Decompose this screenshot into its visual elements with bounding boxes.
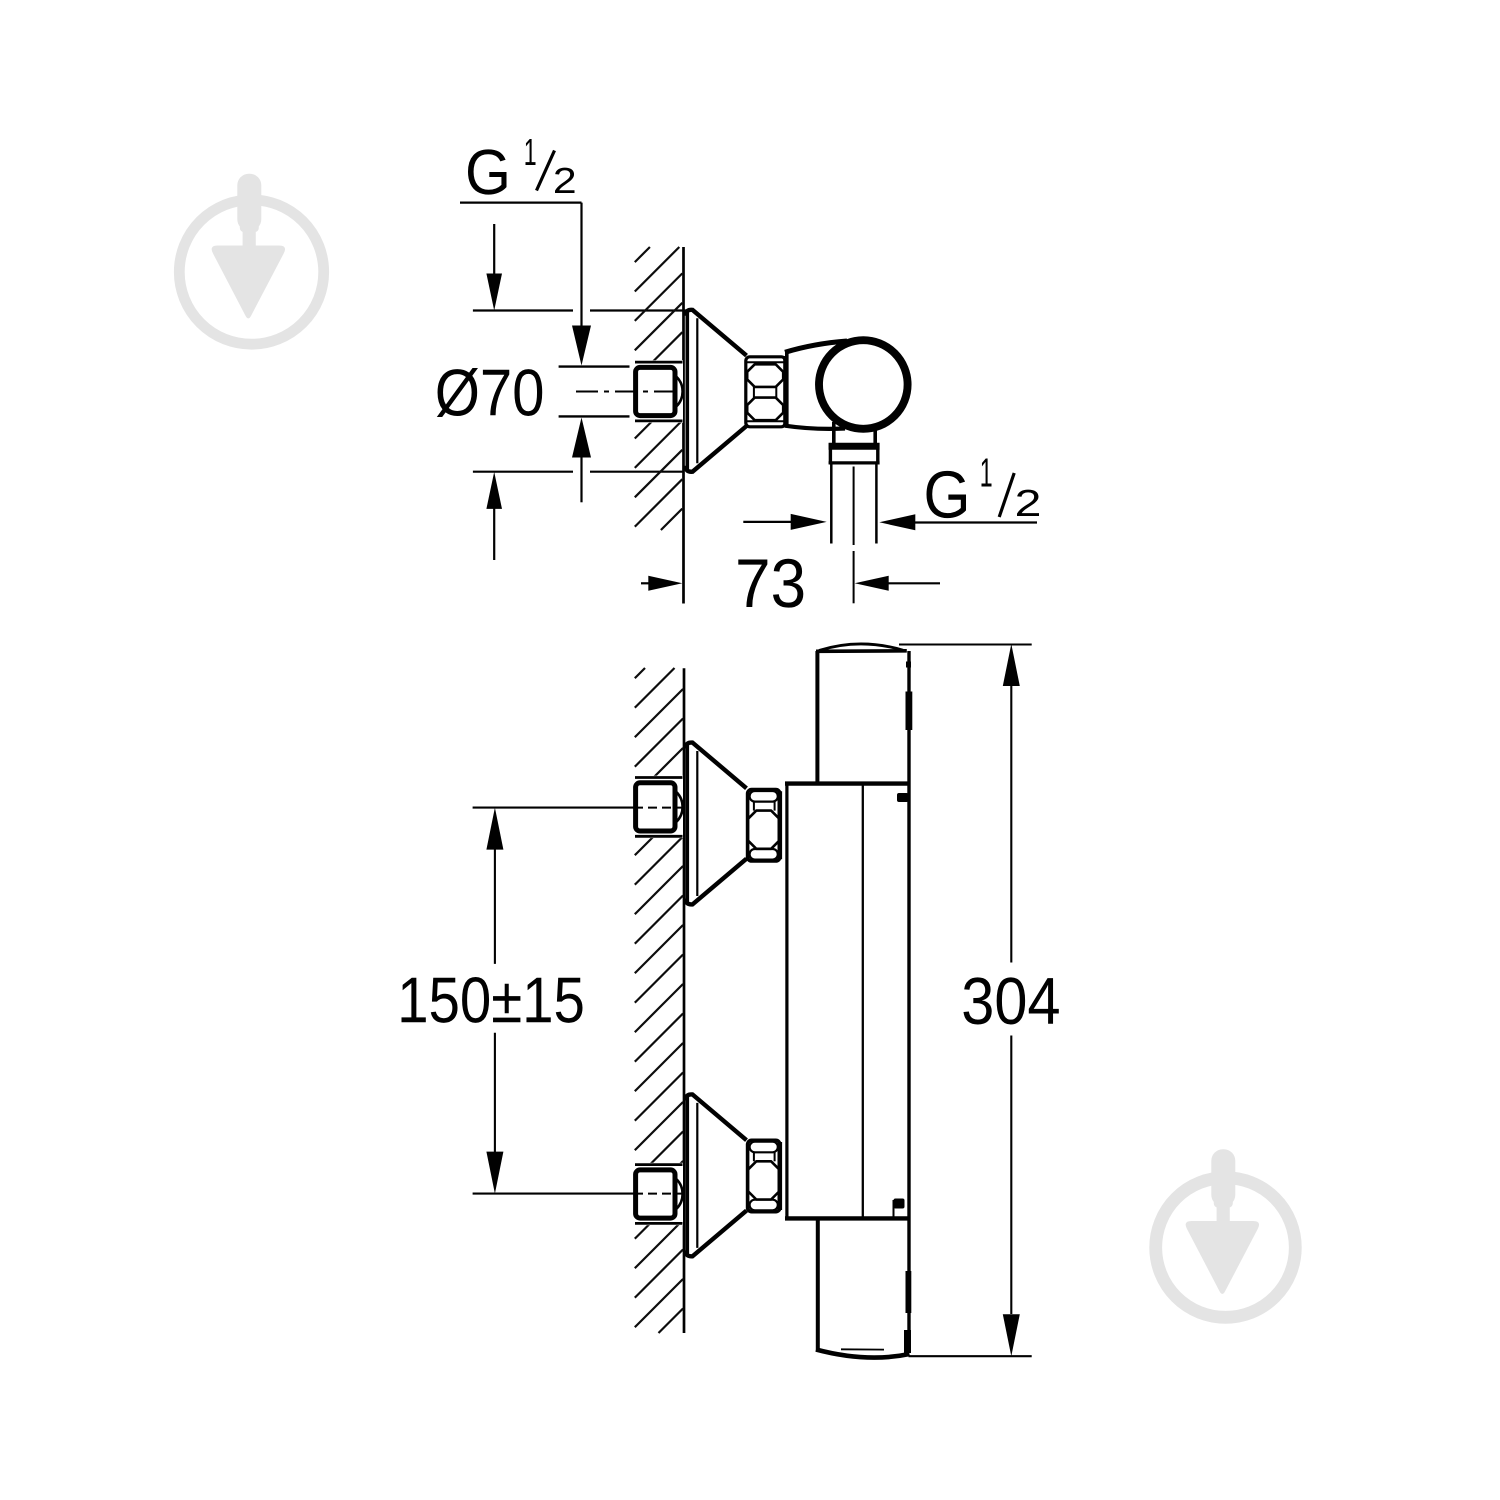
hex nut (top view) [746, 356, 786, 428]
lower escutcheon cone [686, 1094, 747, 1256]
upper union square fitting behind wall [630, 776, 684, 838]
center line of inlet (dash-dot) [576, 391, 683, 393]
dim 150: upper extension line / center line [473, 807, 683, 809]
leader arrow from G1/2 label down to inlet pipe top edge [572, 203, 591, 366]
dim 304: upper arrow [1003, 644, 1020, 963]
dim 150±15: lower arrow [486, 1033, 503, 1194]
watermark logo bottom-right (trowel in ring) [1156, 1149, 1296, 1317]
outlet flange collar [829, 443, 880, 464]
dim 73: left arrow at wall [641, 576, 682, 591]
wall hatching (bottom view) [635, 668, 683, 1333]
dim 304: bottom extension line [909, 1355, 1032, 1357]
watermark logo top-left (trowel in ring) [179, 174, 323, 344]
fixing screw tick (upper) [897, 793, 909, 802]
dim text 304 [963, 977, 1058, 1024]
outlet pipe (G1/2 shower hose thread) [831, 465, 876, 544]
mixer body upper cylinder [816, 644, 907, 784]
valve body (top view) [785, 341, 847, 429]
dim Ø70: bottom extension line [473, 471, 684, 473]
escutcheon cone (top view) [686, 310, 747, 472]
dim text Ø70 [437, 368, 542, 417]
dim Ø70: arrow up onto bottom line [486, 472, 502, 560]
thermostat knob circle (top view) [819, 340, 908, 429]
outlet center line [853, 467, 855, 604]
label G 1/2 (outlet thread) [927, 459, 1039, 519]
wall hatching (top view) [635, 247, 683, 530]
upper escutcheon cone [686, 743, 747, 905]
mixer front plate [785, 784, 911, 1219]
G1/2 outlet leader: right arrow with underline [879, 514, 1037, 530]
dim 304: lower arrow [1003, 1036, 1020, 1357]
dim 150: lower extension line / center line [473, 1193, 683, 1195]
dim text 73 [738, 559, 803, 608]
outlet neck below knob [834, 422, 875, 445]
wall section line (bottom view) [683, 668, 686, 1333]
arrow up at inlet pipe bottom edge [572, 418, 591, 503]
dim Ø70: arrow down onto top line [486, 224, 502, 311]
upper hex nut [748, 790, 780, 861]
mixer body lower cylinder [816, 1218, 910, 1357]
fixing screw tick (lower) [894, 1199, 905, 1217]
mixer body right edge [907, 651, 910, 1353]
handle lever protrusions on right edge [904, 662, 912, 1354]
label G 1/2 (top inlet thread) [460, 139, 582, 203]
dim 304: top extension line [899, 643, 1032, 645]
dim Ø70: top extension line [473, 309, 692, 311]
union square fitting behind wall (top view) [630, 360, 684, 422]
inlet pipe stub behind wall [559, 367, 635, 417]
dim 73: right arrow at outlet center [855, 576, 940, 591]
dim text 150±15 [402, 977, 583, 1023]
G1/2 outlet leader: left arrow [743, 514, 826, 530]
lower union square fitting behind wall [630, 1163, 684, 1225]
wall section line (top view) [682, 247, 685, 604]
dim 150±15: upper arrow [486, 808, 503, 964]
lower hex nut [748, 1140, 780, 1211]
